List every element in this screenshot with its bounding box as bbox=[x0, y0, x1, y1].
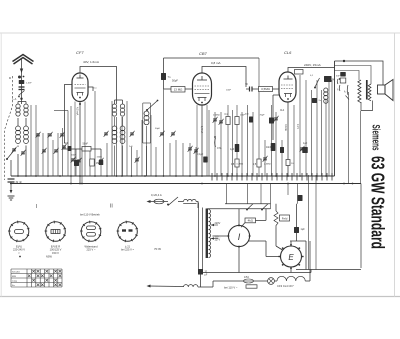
capacitor x329 bbox=[327, 76, 332, 82]
svg-text:1,5nF: 1,5nF bbox=[26, 83, 32, 85]
switch arm M3 bbox=[147, 101, 157, 110]
resistor anode box bbox=[295, 70, 304, 75]
svg-text:0,3MΩ: 0,3MΩ bbox=[237, 164, 244, 166]
trimmer T1 bbox=[12, 147, 17, 153]
capacitor blob x300 bbox=[298, 195, 303, 201]
coil M1a bbox=[112, 104, 116, 116]
node LA bbox=[20, 98, 22, 100]
wire dist upper bbox=[225, 203, 271, 205]
wire trafo left outer bbox=[198, 203, 200, 270]
socket 2 EVER bbox=[46, 222, 66, 242]
terminal bottom bbox=[147, 285, 151, 288]
tube V2 cathode bbox=[198, 98, 207, 102]
wire bottom y269 bbox=[296, 269, 361, 271]
svg-text:0,5MΩ: 0,5MΩ bbox=[261, 87, 270, 91]
contact j1 bbox=[336, 79, 339, 84]
trafo tap 110-127V bbox=[211, 238, 218, 240]
capacitor elko out bbox=[340, 72, 346, 77]
svg-text:i₂: i₂ bbox=[337, 88, 339, 91]
svg-text:1nF: 1nF bbox=[129, 146, 133, 148]
svg-text:0,4mA: 0,4mA bbox=[284, 124, 287, 131]
fuse F2 bbox=[244, 279, 254, 283]
svg-text:C7A: C7A bbox=[217, 147, 222, 150]
label Feld box bbox=[280, 215, 290, 221]
svg-text:0,1MΩ: 0,1MΩ bbox=[213, 115, 220, 117]
trimmer cap t6 bbox=[54, 148, 59, 154]
trimmer cap t8 bbox=[77, 158, 82, 164]
svg-text:50pF: 50pF bbox=[172, 79, 178, 83]
svg-text:50pF: 50pF bbox=[155, 128, 161, 130]
svg-text:1/54: 1/54 bbox=[244, 276, 249, 279]
svg-text:bei 110 V ~: bei 110 V ~ bbox=[224, 285, 238, 289]
svg-text:150Ω: 150Ω bbox=[97, 157, 103, 159]
coil M3 bbox=[144, 111, 149, 125]
wire V1 grid left bbox=[65, 85, 73, 144]
tube V2 envelope bbox=[193, 73, 212, 105]
capacitor 1uF x305 bbox=[302, 147, 308, 153]
wire V1 cathode down bbox=[79, 102, 81, 184]
trafo secondary loops bbox=[209, 210, 211, 258]
svg-text:150 V: 150 V bbox=[52, 251, 59, 255]
socket 1 E(V) bbox=[9, 222, 29, 242]
svg-text:70pF: 70pF bbox=[260, 115, 266, 117]
wire cap32 stub bbox=[200, 275, 202, 288]
wire M coils join bbox=[115, 117, 123, 176]
svg-text:10nF: 10nF bbox=[226, 90, 232, 92]
resistor 13M bbox=[171, 87, 185, 93]
svg-text:0,1/0,4 A: 0,1/0,4 A bbox=[151, 193, 162, 197]
svg-text:CF7: CF7 bbox=[76, 50, 84, 55]
ground symbol bbox=[8, 196, 15, 200]
wire x329 bbox=[328, 82, 330, 176]
svg-text:225 V ~: 225 V ~ bbox=[86, 248, 95, 252]
svg-text:32 nF: 32 nF bbox=[16, 181, 23, 184]
dashed gang line bbox=[5, 76, 13, 180]
svg-text:70 W: 70 W bbox=[154, 247, 161, 251]
capacitor 400pF bbox=[249, 117, 253, 123]
wire x163 down bbox=[164, 58, 172, 89]
capacitor blob x282 bbox=[280, 147, 284, 153]
switch arm antenna bbox=[19, 91, 25, 96]
wire x308 long bbox=[308, 175, 310, 270]
choke bumps 505 bbox=[183, 199, 196, 203]
capacitor ant coupling bbox=[19, 80, 25, 84]
wire E bottom bbox=[290, 267, 292, 273]
resistor 2.5M v bbox=[257, 159, 261, 167]
wire M3 bracket bbox=[143, 103, 151, 143]
junction dots buses bbox=[17, 175, 19, 177]
svg-text:CL6: CL6 bbox=[284, 50, 292, 55]
trimmer cap t19 bbox=[263, 156, 268, 162]
antenna arrow bbox=[20, 69, 23, 74]
switch contact a bbox=[247, 204, 253, 210]
wire V1 heater down bbox=[75, 102, 85, 177]
coil M2a bbox=[112, 126, 117, 144]
tube V3 anode bbox=[284, 76, 293, 80]
svg-text:Widerstand: Widerstand bbox=[84, 244, 98, 248]
resistor small 10 bbox=[286, 160, 290, 166]
capacitor ant series bbox=[19, 87, 25, 90]
wire 8nF row bbox=[63, 148, 82, 150]
contact C7A bbox=[214, 138, 217, 147]
tube V1 anode bbox=[77, 75, 84, 79]
svg-text:E/V/E R: E/V/E R bbox=[51, 244, 60, 248]
wire Feld bbox=[276, 204, 283, 250]
trimmer cap t21 bbox=[300, 146, 305, 152]
coil M2b bbox=[120, 126, 125, 144]
svg-text:CB7: CB7 bbox=[199, 51, 208, 56]
capacitor blob x101 bbox=[99, 160, 104, 165]
svg-text:∆ 21: ∆ 21 bbox=[125, 244, 131, 248]
wire forest RF verticals bbox=[31, 58, 332, 184]
table X marks bbox=[32, 270, 35, 273]
trimmer cap t4 bbox=[60, 132, 65, 138]
wire E top bbox=[290, 241, 292, 246]
antenna bbox=[13, 55, 34, 65]
trimmer cap t20 bbox=[274, 116, 279, 122]
tube V1 cathode bbox=[77, 93, 84, 96]
wire choke to trafo bbox=[196, 202, 198, 209]
wire x316 long bbox=[315, 175, 317, 270]
trimmer cap t15 bbox=[188, 146, 193, 152]
wire V1 screen right bbox=[88, 87, 93, 91]
capacitor 0.1uF cath bbox=[203, 157, 208, 163]
svg-text:240V, 15mA: 240V, 15mA bbox=[304, 63, 322, 67]
motor E circle bbox=[281, 246, 302, 267]
wire V2 heater bbox=[197, 105, 207, 176]
capacitor 7n bbox=[161, 73, 166, 80]
wire trafo top bbox=[207, 208, 271, 210]
svg-text:10nF: 10nF bbox=[266, 146, 272, 149]
svg-text:Siemens: Siemens bbox=[369, 125, 381, 151]
verticals from bus B bbox=[227, 184, 298, 209]
wire fuse bbox=[150, 201, 168, 203]
svg-text:5nF: 5nF bbox=[336, 76, 340, 78]
svg-text:CL4: CL4 bbox=[280, 110, 285, 112]
wire E frame bbox=[290, 241, 306, 270]
wire to choke bbox=[178, 201, 184, 203]
svg-text:40V, 1.6mA: 40V, 1.6mA bbox=[83, 60, 100, 64]
socket 3 Widerstand bbox=[81, 222, 101, 242]
resistor mains box bbox=[246, 285, 257, 288]
wire lamp end bbox=[305, 241, 310, 281]
svg-text:100/125 V: 100/125 V bbox=[50, 248, 62, 252]
tube V3 envelope bbox=[279, 72, 296, 102]
tube V2 anode bbox=[197, 76, 207, 80]
wire M1 top join bbox=[115, 100, 123, 104]
svg-text:Lang: Lang bbox=[12, 281, 18, 283]
svg-text:I: I bbox=[36, 204, 37, 210]
resistor 0.5M v bbox=[235, 159, 239, 167]
trafo primary wire bbox=[202, 208, 204, 271]
resistor Feld zigzag bbox=[274, 211, 278, 228]
wire to V3 bbox=[273, 88, 280, 90]
svg-text:4,5 mA: 4,5 mA bbox=[76, 107, 80, 115]
wire V3 bottom bbox=[287, 102, 289, 176]
page left edge bbox=[0, 33, 2, 297]
page right edge bbox=[394, 33, 396, 297]
trafo core bbox=[206, 209, 208, 259]
svg-text:1µF: 1µF bbox=[301, 228, 306, 231]
bus B bbox=[10, 183, 361, 185]
lamp row wire bbox=[213, 280, 277, 282]
wire x11 down bbox=[10, 160, 12, 176]
wire bottom y272 bbox=[203, 272, 311, 274]
output trafo secondary zigzag bbox=[368, 84, 371, 101]
coil L1a bbox=[16, 104, 20, 116]
svg-text:10nF: 10nF bbox=[240, 115, 246, 117]
capacitor 70p blob bbox=[269, 118, 274, 124]
trimmer T2 bbox=[21, 150, 26, 156]
terminal ladder ticks bbox=[212, 173, 332, 181]
trimmer cap t7 bbox=[71, 157, 76, 163]
svg-text:1µF: 1µF bbox=[303, 142, 308, 145]
resistor 4k bbox=[245, 218, 256, 223]
wire x26 down bbox=[25, 146, 27, 177]
wire mains bottom bbox=[149, 285, 184, 288]
rectifier I rim dots bbox=[238, 224, 240, 226]
heater bumps bbox=[277, 276, 305, 281]
trimmer cap t17 bbox=[213, 117, 218, 123]
wire V2 anode up-right bbox=[202, 67, 246, 88]
tube V2 grids bbox=[195, 86, 210, 90]
switch arm V3 right bbox=[315, 78, 320, 87]
tube V1 CF7 envelope bbox=[72, 73, 88, 102]
wire 4k bbox=[241, 209, 266, 228]
capacitor 1u top bbox=[324, 76, 329, 82]
tube V3 grids bbox=[281, 85, 294, 89]
trimmer cap t13 bbox=[160, 131, 165, 137]
speaker magnet bbox=[378, 85, 386, 94]
bus A bbox=[11, 175, 335, 177]
ground cap 32nF bbox=[8, 179, 15, 182]
svg-text:E(/V): E(/V) bbox=[16, 244, 22, 248]
wire contacts down bbox=[349, 92, 361, 184]
svg-text:220V: 220V bbox=[215, 222, 221, 225]
output trafo core bbox=[366, 80, 368, 100]
wire antenna-down bbox=[21, 58, 23, 104]
lamp X bbox=[268, 278, 275, 285]
svg-text:20nF: 20nF bbox=[71, 155, 77, 157]
wire V1 anode up bbox=[80, 67, 117, 105]
fuse F1 bbox=[154, 199, 164, 204]
svg-text:Feld: Feld bbox=[282, 217, 288, 221]
contact arrow bbox=[346, 96, 350, 100]
wire I left bbox=[213, 235, 229, 237]
wire x311 bbox=[310, 270, 312, 273]
wire y110 link bbox=[54, 111, 68, 147]
wire L1 join bbox=[18, 102, 26, 127]
svg-text:0,1µF: 0,1µF bbox=[197, 153, 204, 156]
rectifier I circle bbox=[228, 225, 249, 246]
junction out bbox=[343, 60, 345, 62]
socket 4 A21 bbox=[118, 222, 138, 242]
trimmer cap t16 bbox=[194, 148, 199, 154]
wire cap E bbox=[296, 204, 298, 241]
wire V3 anode rail bbox=[288, 68, 335, 73]
capacitor 1uF E bbox=[294, 227, 299, 233]
bus B corner down bbox=[360, 184, 362, 269]
switch contact b bbox=[262, 204, 268, 210]
motor E rim dots bbox=[302, 256, 304, 258]
wire I top bbox=[238, 209, 240, 226]
capacitor 1uF mid bbox=[235, 144, 240, 152]
svg-text:63 GW Standard: 63 GW Standard bbox=[368, 156, 388, 249]
output trafo primary zigzag bbox=[358, 80, 361, 103]
svg-text:13 MΩ: 13 MΩ bbox=[174, 88, 183, 92]
wire mains bottom2 bbox=[198, 281, 213, 287]
resistor 0.5M grid bbox=[259, 87, 273, 92]
trimmer cap t12 bbox=[135, 157, 140, 163]
capacitor 70nF coupling bbox=[250, 87, 253, 92]
svg-text:0,8 mA: 0,8 mA bbox=[211, 61, 221, 65]
wire top rail y58 bbox=[164, 57, 260, 59]
ground arrow bbox=[10, 184, 12, 193]
capacitor 8nF bbox=[68, 146, 72, 151]
svg-text:4kΩ: 4kΩ bbox=[248, 219, 254, 223]
tube V3 cathode bbox=[284, 94, 292, 98]
capacitor 2n blob bbox=[312, 98, 317, 103]
trimmer cap t9 bbox=[99, 158, 104, 164]
switch arm input bbox=[7, 148, 16, 159]
coil L2b bbox=[24, 126, 29, 144]
svg-text:bei 225 V ≈: bei 225 V ≈ bbox=[121, 248, 135, 252]
svg-text:50nF: 50nF bbox=[83, 143, 89, 146]
svg-text:Schalter: Schalter bbox=[12, 271, 20, 274]
trimmer cap t10 bbox=[104, 131, 109, 137]
choke bumps bottom bbox=[184, 285, 198, 287]
wire x18 down bbox=[17, 146, 19, 177]
capacitor 20nF bbox=[74, 160, 79, 166]
svg-text:i₁₂: i₁₂ bbox=[344, 90, 346, 93]
capacitor V3 left bbox=[271, 143, 276, 151]
capacitor electrolytic 32uF bbox=[198, 269, 203, 275]
trafo tap 220V bbox=[211, 224, 218, 226]
svg-text:2,5MΩ: 2,5MΩ bbox=[264, 164, 271, 166]
contact i12 bbox=[346, 85, 349, 95]
svg-text:E: E bbox=[288, 253, 294, 262]
trimmer cap t5 bbox=[42, 148, 47, 154]
wire V3 left cap bbox=[273, 95, 279, 140]
coil M1b bbox=[120, 104, 124, 116]
resistor 50nF bbox=[82, 147, 91, 152]
svg-text:II: II bbox=[110, 204, 113, 210]
wire out rail1 bbox=[335, 61, 384, 85]
wire V2 bottom bbox=[201, 105, 203, 176]
resistor 150 bbox=[90, 159, 95, 166]
coil L2a bbox=[16, 126, 21, 144]
trimmer cap t2 bbox=[36, 132, 41, 138]
trimmer cap t18 bbox=[219, 119, 224, 125]
wire coupling bbox=[246, 88, 259, 90]
resistor 0.1M bbox=[226, 117, 230, 125]
contact i2 bbox=[338, 85, 341, 91]
resistor Dr bbox=[235, 117, 239, 125]
wire M3 down bbox=[146, 126, 148, 176]
svg-text:L.A: L.A bbox=[13, 98, 17, 101]
node D contact bbox=[18, 76, 21, 79]
coil L1b bbox=[24, 104, 28, 116]
wire E left bbox=[248, 241, 280, 257]
svg-text:bei 110 V Betrieb: bei 110 V Betrieb bbox=[80, 212, 100, 216]
page top edge bbox=[0, 32, 400, 34]
wire out rail2 bbox=[335, 66, 372, 85]
svg-text:CF3 CL4 CF7: CF3 CL4 CF7 bbox=[277, 284, 294, 288]
svg-text:NSW: NSW bbox=[46, 256, 52, 259]
wire out rail3 bbox=[335, 71, 360, 81]
switch S1 mains bbox=[168, 197, 178, 206]
wire 50nF right bbox=[91, 149, 101, 160]
trimmer cap t11 bbox=[130, 131, 135, 137]
terminal mains bbox=[147, 200, 151, 203]
svg-text:1µF: 1µF bbox=[230, 148, 235, 151]
tube V2 screen bbox=[195, 93, 210, 95]
table grid bbox=[11, 269, 62, 287]
tube V1 grid bbox=[75, 84, 86, 86]
bus A corner up bbox=[334, 61, 336, 176]
wire 13M to V2 bbox=[185, 88, 193, 90]
tube V1 screen bbox=[75, 87, 86, 89]
coil output choke bbox=[324, 88, 328, 103]
page bottom edge bbox=[0, 296, 400, 298]
trimmer cap t14 bbox=[171, 131, 176, 137]
wire I bottom bbox=[238, 247, 240, 273]
trimmer cap t3 bbox=[48, 132, 53, 138]
wire out bottom1 bbox=[361, 101, 373, 111]
speaker cone bbox=[385, 80, 393, 101]
trimmer V1 grid bbox=[62, 144, 67, 150]
svg-text:127V: 127V bbox=[215, 239, 221, 242]
svg-text:41 V: 41 V bbox=[296, 124, 299, 129]
